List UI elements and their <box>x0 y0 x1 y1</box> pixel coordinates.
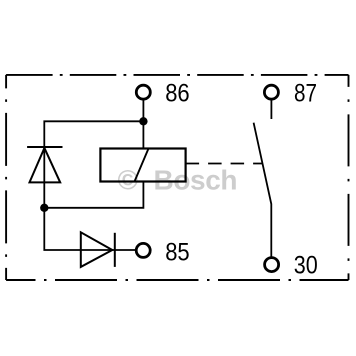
svg-text:86: 86 <box>165 80 190 108</box>
svg-text:85: 85 <box>165 238 190 266</box>
svg-text:30: 30 <box>294 251 318 279</box>
svg-text:Bosch: Bosch <box>154 164 238 195</box>
svg-text:87: 87 <box>294 80 317 108</box>
